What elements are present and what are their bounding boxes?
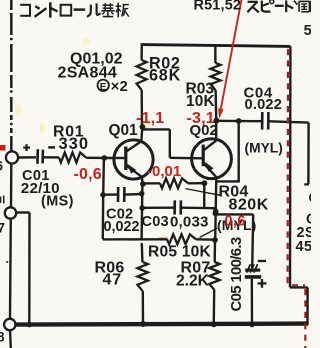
node R06 rail junction [140,321,146,327]
svg-text:7: 7 [0,221,6,236]
svg-text:5: 5 [304,23,311,39]
label C01 value [21,180,60,197]
svg-text:68K: 68K [149,67,181,85]
label voltage -3.1 [187,110,215,127]
label C04 [244,85,273,102]
annotation MYL leader [200,228,218,238]
label C05 value vertical [228,237,245,311]
wire C04 right [269,121,309,122]
label R02 value [149,67,181,85]
resistor R06 [137,262,147,291]
node Q01 collector junction [140,124,146,130]
scan smudges under ink [15,38,168,240]
svg-text:6: 6 [0,159,4,174]
node C02 left junction [100,192,106,198]
node C02 right junction [139,191,145,197]
label C02 [106,207,133,223]
svg-text:820K: 820K [229,196,269,213]
label C04 value [245,97,283,113]
svg-text:45: 45 [296,239,312,255]
label Ex2 [98,79,129,95]
svg-text:47: 47 [103,272,122,289]
mark red sliver [0,145,6,151]
wire C02 left lead [103,193,117,195]
wire rail to R03 [214,46,216,63]
label C01 minus [48,146,55,148]
wire emitter to R06 [141,243,144,262]
wire C02 branch down [102,195,105,240]
wire down at right edge [304,123,309,185]
wire emitter line B [140,184,143,239]
transistor Q02 emitter [204,162,216,177]
svg-text:-0,01: -0,01 [147,163,181,180]
resistor R03 [211,63,221,90]
label R06 [95,259,125,276]
svg-text:(MS): (MS) [41,194,74,210]
wire R02 to rail corner [140,44,143,60]
resistor R01 [59,153,86,163]
svg-text:R51,52: R51,52 [194,0,242,14]
svg-text:330: 330 [59,135,90,153]
label R05 [148,243,211,260]
wire boundary red dashed [288,49,306,348]
label C03 [142,214,169,230]
node C03 left junction [139,205,145,211]
wire Q02 collector up [215,121,217,140]
svg-text:Q01: Q01 [109,122,139,139]
label voltage -1.1 [136,110,164,127]
capacitor C05 plate top [245,264,260,272]
label R06 value [103,272,122,289]
node connector 6 [6,151,18,163]
label C05 plus [258,279,267,288]
wire Q02 emitter down [215,177,216,240]
svg-text:-0,6: -0,6 [74,166,102,183]
svg-text:R05 10K: R05 10K [148,243,211,260]
wire C03 left [142,206,173,209]
transistor Q02 circle [192,139,232,179]
label C02 value [104,219,140,235]
node C05 branch junction [236,118,242,124]
node R05 right junction [212,237,218,243]
label R01 value 330 [59,135,90,153]
resistor R04 [160,178,188,188]
wire R05 right [196,238,215,241]
wire C01 to R01 [44,156,59,158]
node emitter C05 junction [213,210,219,216]
label C05 minus [258,260,266,262]
transistor Q01 base lead [114,157,125,159]
label Q01,02 [70,51,123,68]
wire C02 right lead [125,193,141,196]
label title control board japanese [20,2,129,17]
svg-text:-3,1: -3,1 [187,110,215,127]
node base Q01 junction [101,155,107,161]
capacitor C01 [38,149,43,164]
wire emitter to C05 [216,214,254,268]
node connector 7 [5,207,16,218]
node label 6 [0,159,4,174]
svg-text:(MYL): (MYL) [245,141,283,156]
mark katakana ri sliver [1,196,4,204]
svg-text:-1,1: -1,1 [136,110,164,127]
svg-text:C: C [309,191,312,205]
label voltage -0.01 [147,163,181,180]
transistor Q01 collector [127,142,141,152]
label R07 value [176,273,210,290]
wire dash-dot board boundary left [10,0,13,152]
label R04 value [229,196,269,213]
node R04 right junction [202,180,208,186]
wire connector7 right [16,213,29,323]
wire collector node right [216,120,261,123]
wire R04 right [188,182,204,185]
transistor Q01 circle [114,140,153,179]
svg-text:0.022: 0.022 [245,97,283,113]
wire feedback down [216,122,240,181]
capacitor C05 plate bottom [245,275,261,279]
label C03 type MYL [217,217,256,233]
svg-text:8: 8 [0,330,5,345]
wire negative supply rail [141,45,291,47]
capacitor C04 [262,112,268,130]
node C03 emitter junction [213,209,219,215]
node Q01 emitter junction [140,181,146,187]
transistor Q02 collector [204,141,216,150]
label C01 plus [23,144,30,151]
label 2SA844 [58,65,118,82]
svg-text:2.2K: 2.2K [176,273,210,290]
label R03 value [186,93,215,110]
svg-text:×2: ×2 [111,79,128,95]
label C03 value [170,214,209,231]
node label 8 [0,330,5,345]
resistor R07 [209,262,219,290]
capacitor C03 [175,200,181,214]
label R07 [181,260,211,277]
svg-text:10K: 10K [186,93,215,110]
resistor R05 [167,234,196,244]
transistor Q01 emitter [127,164,142,177]
wire emitter to R07 [213,240,216,262]
wire board boundary right [290,46,308,325]
svg-text:C05 100/6.3: C05 100/6.3 [228,237,245,311]
label Q51 partial [296,191,320,255]
wire R06 to rail [142,291,145,322]
label R03 [186,81,215,98]
wire ground rail [16,324,309,325]
wire C03 right [182,206,216,209]
svg-text:2SA844: 2SA844 [58,65,118,82]
label R04 [219,183,249,200]
wire connector6 to C01 [18,156,36,159]
label Q01 [109,122,139,139]
svg-text:0,033: 0,033 [170,214,209,231]
node connector 8 [4,319,15,330]
wire collector to Q02 base jog [142,129,202,158]
label C04 type MYL [245,141,283,156]
transistor Q02 base bar [202,145,205,167]
label C01 type [41,194,74,210]
label voltage 0.6 red [225,214,246,230]
node C05 rail junction [249,322,255,328]
node R07 rail junction [211,321,217,327]
wire emitter to R04 [143,182,160,184]
svg-text:E: E [100,82,107,93]
label 5 [304,23,313,39]
capacitor C02 [118,187,124,202]
label Q02 [190,122,218,139]
wire R03 to collector node [214,90,217,119]
wire R07 to rail [213,290,216,322]
wire connector bus [6,164,11,348]
node Q02 collector junction [213,118,219,124]
wire C05 down [251,279,254,322]
wire R05 left [103,238,167,240]
resistor R02 [137,60,147,90]
label C01 name [22,168,50,184]
svg-text:C02: C02 [106,207,133,223]
wire Q01 collector up [141,127,142,142]
wire R04 node down [203,183,206,208]
wire R01 to Q01 base [86,157,114,160]
annotation R04 leader [186,189,221,196]
label R01 [53,123,84,140]
svg-text:C03: C03 [142,214,169,230]
annotation red line [218,0,242,119]
label speed adjust japanese [247,0,310,12]
wire junction to R02 [140,90,143,127]
node label 7 [0,221,6,236]
label voltage -0.6 [74,166,102,183]
node connector7 rail junction [26,322,32,328]
wire Q01 emitter down [141,177,144,184]
transistor Q01 base bar [124,147,127,171]
label R02 [149,54,181,72]
wire base node down [102,158,105,195]
svg-text:0,6: 0,6 [225,214,246,230]
label R51,52 [194,0,242,14]
